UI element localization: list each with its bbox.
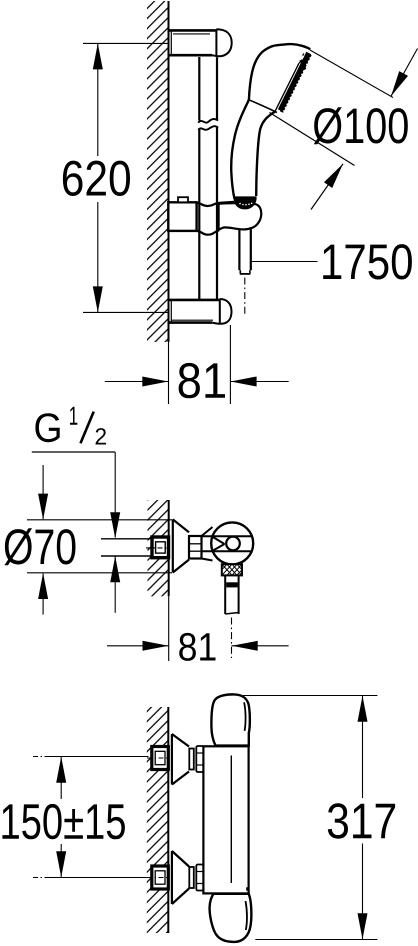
upper escutcheon cone — [172, 734, 189, 785]
thermostat top handle — [211, 694, 249, 745]
slider saddle top edge — [197, 202, 235, 206]
supply pipe stub — [101, 539, 152, 556]
leader under G 1/2 — [32, 451, 115, 453]
lower supply centerline — [33, 877, 48, 879]
handle left edge — [231, 100, 249, 199]
upper hex fitting — [147, 747, 168, 770]
dimension 620 — [63, 43, 130, 312]
dimension Ø70 — [4, 465, 172, 615]
hose centerline / right extension — [231, 618, 233, 659]
rail break symbol — [198, 119, 218, 130]
wall hatch middle — [148, 500, 169, 596]
hand shower head outline — [249, 44, 310, 100]
dimension 81 (middle view) — [107, 596, 289, 661]
dimension 81 (top view) — [105, 325, 289, 404]
head/handle seam — [249, 100, 277, 113]
shower hose — [239, 229, 250, 274]
extension line bottom (620) — [83, 311, 169, 313]
dimension Ø100 — [270, 49, 418, 210]
knurled hose nut — [222, 564, 242, 575]
slider holder lobe — [219, 203, 262, 230]
valve hex body — [189, 527, 213, 561]
label G 1/2 — [35, 407, 106, 445]
hose centerline — [244, 278, 246, 316]
hand shower face plate inner edge — [275, 54, 304, 111]
slider clamp — [168, 197, 196, 231]
lower hex fitting — [147, 866, 168, 889]
dimension 150±15 — [2, 757, 125, 878]
top wall bracket — [169, 29, 232, 56]
slider grip collar (dark) — [234, 197, 256, 209]
valve round head — [202, 522, 254, 564]
wall hatch top — [147, 1, 169, 342]
concealed hex fitting — [146, 537, 169, 558]
extension lines 317 — [243, 696, 377, 940]
leader 1750 — [251, 244, 412, 279]
extension lines 150±15 — [48, 757, 149, 878]
wall hatch bottom — [147, 707, 169, 933]
bottom wall bracket — [169, 299, 232, 324]
hose (middle view) — [225, 575, 238, 614]
hand shower spray face (dark band) — [280, 53, 310, 112]
extension line top (620) — [83, 42, 169, 44]
lower escutcheon cone — [172, 851, 189, 904]
leader/dim line down to pipe (with down arrow) — [110, 452, 120, 613]
upper union rings — [189, 746, 203, 772]
slider saddle bottom edge — [197, 230, 220, 234]
thermostat body — [203, 746, 248, 893]
dimension 317 — [328, 696, 395, 940]
escutcheon cone — [173, 519, 189, 572]
thermostat bottom handle — [210, 894, 252, 942]
upper supply centerline — [33, 756, 48, 758]
handle right edge — [256, 111, 276, 196]
lower union rings — [189, 865, 203, 891]
shower rail tube — [199, 57, 217, 299]
